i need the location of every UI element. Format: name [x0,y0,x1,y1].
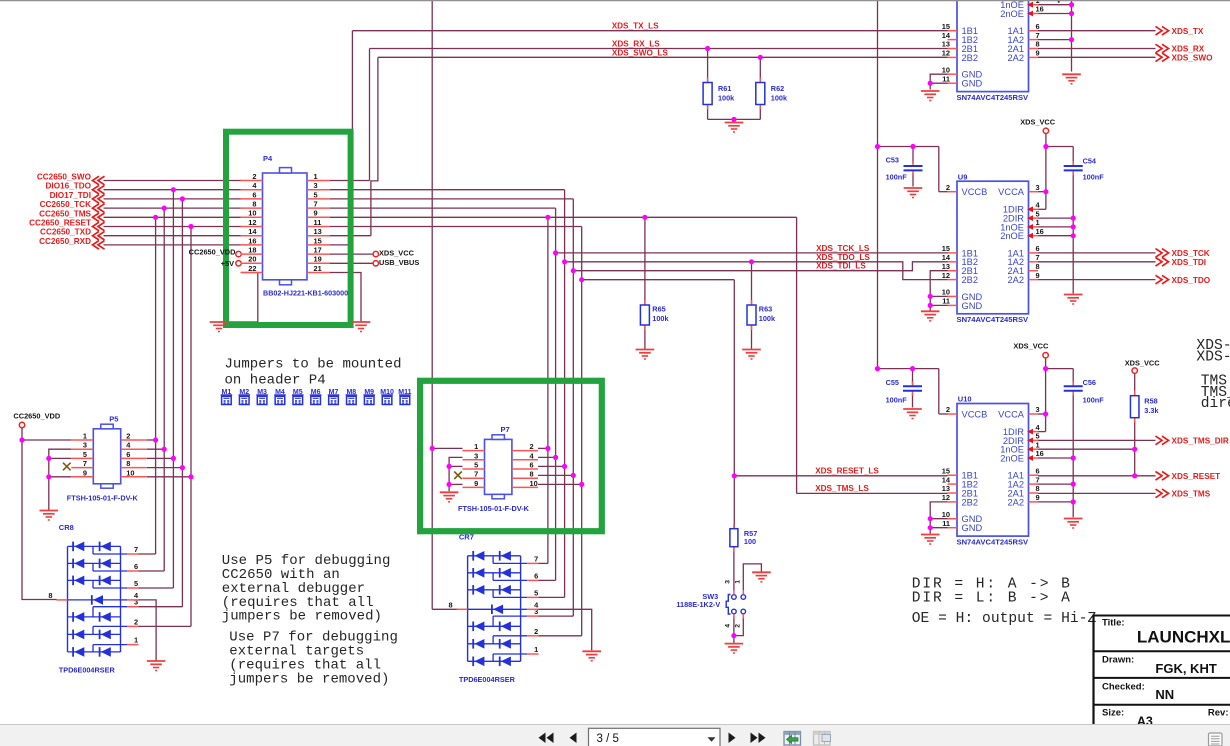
svg-text:XDS_TX_LS: XDS_TX_LS [612,21,659,30]
svg-text:11: 11 [942,74,950,83]
svg-text:XDS_RESET: XDS_RESET [1172,472,1221,481]
svg-text:U9: U9 [958,172,968,181]
svg-text:VCCA: VCCA [998,187,1025,197]
svg-text:12: 12 [942,49,950,58]
svg-text:9: 9 [1036,271,1040,280]
svg-text:100nF: 100nF [1083,172,1105,181]
svg-text:100nF: 100nF [886,396,908,405]
svg-text:8: 8 [252,200,256,209]
svg-text:16: 16 [1036,227,1044,236]
svg-text:2A2: 2A2 [1007,497,1024,507]
svg-text:14: 14 [942,253,951,262]
svg-text:DIR = L: B -> A: DIR = L: B -> A [912,591,1070,607]
svg-text:18: 18 [248,246,256,255]
svg-text:3.3k: 3.3k [1144,406,1159,415]
svg-text:14: 14 [942,475,951,484]
svg-text:XDS_VCC: XDS_VCC [1013,342,1049,351]
svg-text:10: 10 [942,288,950,297]
svg-text:8: 8 [1036,262,1040,271]
svg-text:6: 6 [126,450,130,459]
svg-text:USB_VBUS: USB_VBUS [379,258,419,267]
svg-text:XDS_VCC: XDS_VCC [1125,358,1161,367]
svg-text:GND: GND [962,79,983,89]
svg-text:C54: C54 [1083,156,1097,165]
svg-text:4: 4 [1036,423,1041,432]
svg-text:100k: 100k [718,94,735,103]
svg-text:9: 9 [83,468,87,477]
svg-text:XDS_TMS_DIR: XDS_TMS_DIR [1172,437,1229,446]
svg-text:TPD6E004RSER: TPD6E004RSER [459,675,516,684]
svg-text:5: 5 [83,450,87,459]
svg-text:5: 5 [474,461,478,470]
svg-text:1: 1 [1036,218,1040,227]
svg-text:21: 21 [314,264,322,273]
svg-text:OE = H: output = Hi-Z: OE = H: output = Hi-Z [912,611,1097,627]
svg-text:XDS_RX_LS: XDS_RX_LS [612,39,660,48]
svg-text:3 / 5: 3 / 5 [597,733,619,745]
svg-text:XDS_VCC: XDS_VCC [379,249,415,258]
svg-text:19: 19 [314,255,322,264]
svg-text:Title:: Title: [1102,618,1125,629]
svg-text:3: 3 [83,441,87,450]
svg-text:100nF: 100nF [886,172,908,181]
svg-text:+5V: +5V [221,259,234,268]
svg-text:9: 9 [314,209,318,218]
svg-text:2: 2 [946,183,950,192]
svg-text:16: 16 [1036,5,1044,14]
svg-text:FGK, KHT: FGK, KHT [1155,661,1216,676]
svg-text:XDS_TX: XDS_TX [1172,27,1204,36]
svg-text:7: 7 [314,200,318,209]
svg-text:7: 7 [534,554,538,563]
svg-text:R65: R65 [652,304,665,313]
svg-text:2: 2 [534,627,538,636]
svg-text:XDS_TDO: XDS_TDO [1172,276,1211,285]
svg-text:8: 8 [48,591,52,600]
svg-text:P7: P7 [501,425,510,434]
svg-text:SN74AVC4T245RSV: SN74AVC4T245RSV [957,315,1030,324]
svg-text:DIO17_TDI: DIO17_TDI [50,191,91,200]
svg-text:1: 1 [735,580,742,584]
svg-text:R61: R61 [718,84,731,93]
svg-text:3: 3 [314,181,318,190]
svg-text:CC2650_VDD: CC2650_VDD [189,248,236,257]
svg-text:14: 14 [248,227,257,236]
svg-text:100nF: 100nF [1083,396,1105,405]
svg-text:4: 4 [126,441,131,450]
svg-text:Jumpers to be mounted: Jumpers to be mounted [225,357,402,373]
svg-text:9: 9 [1036,49,1040,58]
svg-text:2nOE: 2nOE [1000,231,1024,241]
svg-text:17: 17 [314,246,322,255]
svg-text:2nOE: 2nOE [1000,9,1024,19]
svg-text:DIO16_TDO: DIO16_TDO [46,182,92,191]
svg-text:CC2650_TXD: CC2650_TXD [40,228,91,237]
svg-text:2B2: 2B2 [962,275,979,285]
svg-text:BB02-HJ221-KB1-603000: BB02-HJ221-KB1-603000 [263,288,348,297]
svg-text:6: 6 [530,461,534,470]
svg-text:5: 5 [1036,209,1040,218]
svg-text:2: 2 [530,442,534,451]
svg-text:CC2650_TCK: CC2650_TCK [40,200,92,209]
svg-text:VCCB: VCCB [962,187,988,197]
svg-text:9: 9 [1036,493,1040,502]
svg-text:2: 2 [946,405,950,414]
svg-text:13: 13 [942,40,950,49]
svg-text:5: 5 [134,579,138,588]
svg-text:XDS_TMS_LS: XDS_TMS_LS [815,484,869,493]
svg-text:12: 12 [942,493,950,502]
svg-text:FTSH-105-01-F-DV-K: FTSH-105-01-F-DV-K [458,504,530,513]
svg-text:1: 1 [314,172,318,181]
svg-text:11: 11 [942,519,950,528]
svg-text:12: 12 [248,218,256,227]
svg-text:2: 2 [735,624,742,628]
svg-text:GND: GND [962,301,983,311]
svg-text:jumpers be removed): jumpers be removed) [229,671,389,687]
svg-text:Size:: Size: [1102,707,1124,718]
svg-text:R62: R62 [771,84,784,93]
svg-text:4: 4 [534,600,539,609]
svg-text:100k: 100k [652,314,669,323]
svg-text:22: 22 [248,264,256,273]
svg-text:SN74AVC4T245RSV: SN74AVC4T245RSV [957,93,1030,102]
svg-text:LAUNCHXL-: LAUNCHXL- [1137,627,1230,646]
svg-text:15: 15 [942,466,950,475]
svg-text:5: 5 [314,190,318,199]
svg-text:10: 10 [530,479,538,488]
svg-text:4: 4 [530,451,535,460]
svg-text:8: 8 [530,470,534,479]
svg-text:5: 5 [534,588,538,597]
svg-text:6: 6 [134,562,138,571]
svg-text:2nOE: 2nOE [1000,453,1024,463]
svg-text:U10: U10 [958,395,972,404]
svg-text:2: 2 [252,172,256,181]
svg-text:2B2: 2B2 [962,53,979,63]
svg-text:XDS_TCK_LS: XDS_TCK_LS [816,244,870,253]
svg-text:15: 15 [314,236,322,245]
svg-text:13: 13 [942,484,950,493]
svg-text:6: 6 [252,190,256,199]
svg-text:P4: P4 [263,154,273,163]
svg-text:C55: C55 [886,378,899,387]
svg-text:CC2650_RESET: CC2650_RESET [29,219,91,228]
svg-text:100k: 100k [759,314,776,323]
svg-text:XDS-: XDS- [1196,349,1230,365]
svg-text:dire: dire [1201,396,1230,412]
svg-text:XDS_TCK: XDS_TCK [1172,249,1210,258]
svg-text:6: 6 [534,571,538,580]
svg-text:on header P4: on header P4 [225,373,326,389]
svg-text:7: 7 [474,470,478,479]
svg-text:20: 20 [248,255,256,264]
svg-text:11: 11 [942,297,950,306]
svg-text:XDS_VCC: XDS_VCC [1020,118,1056,127]
svg-text:1: 1 [134,636,138,645]
svg-text:7: 7 [1036,475,1040,484]
svg-text:R63: R63 [759,304,772,313]
svg-text:XDS_RESET_LS: XDS_RESET_LS [815,466,879,475]
svg-text:15: 15 [942,244,950,253]
svg-text:16: 16 [1036,449,1044,458]
svg-text:10: 10 [942,65,950,74]
svg-text:3: 3 [1036,405,1040,414]
svg-text:4: 4 [134,591,139,600]
svg-text:CC2650_VDD: CC2650_VDD [13,412,60,421]
svg-text:10: 10 [248,209,256,218]
svg-text:3: 3 [474,451,478,460]
svg-text:2: 2 [126,432,130,441]
svg-text:1: 1 [1036,440,1040,449]
svg-text:GND: GND [962,523,983,533]
svg-text:XDS_SWO: XDS_SWO [1172,54,1214,63]
svg-text:4: 4 [1036,201,1041,210]
svg-text:3: 3 [1036,183,1040,192]
svg-text:TPD6E004RSER: TPD6E004RSER [59,665,116,674]
svg-text:1: 1 [474,442,478,451]
svg-text:VCCA: VCCA [998,409,1025,419]
svg-text:5: 5 [1036,432,1040,441]
svg-text:16: 16 [248,236,256,245]
svg-text:10: 10 [126,468,134,477]
svg-text:Checked:: Checked: [1102,682,1145,693]
svg-text:100k: 100k [771,94,788,103]
svg-text:6: 6 [1036,466,1040,475]
svg-text:XDS_SWO_LS: XDS_SWO_LS [612,48,669,57]
svg-text:14: 14 [942,31,951,40]
svg-text:C56: C56 [1083,378,1096,387]
svg-text:4: 4 [252,181,257,190]
svg-text:XDS_TDI: XDS_TDI [1172,258,1207,267]
svg-text:13: 13 [942,262,950,271]
svg-text:11: 11 [314,218,322,227]
svg-text:XDS_TMS: XDS_TMS [1172,490,1211,499]
svg-text:2A2: 2A2 [1007,53,1024,63]
svg-text:6: 6 [1036,22,1040,31]
svg-text:jumpers be removed): jumpers be removed) [222,609,382,625]
svg-text:100: 100 [744,537,756,546]
svg-text:P5: P5 [109,414,118,423]
svg-text:9: 9 [474,479,478,488]
svg-text:C53: C53 [886,155,899,164]
svg-text:1188E-1K2-V: 1188E-1K2-V [676,600,720,609]
svg-text:7: 7 [1036,31,1040,40]
svg-text:6: 6 [1036,244,1040,253]
svg-text:1: 1 [534,645,538,654]
svg-text:8: 8 [1036,40,1040,49]
svg-text:7: 7 [1036,253,1040,262]
svg-text:Drawn:: Drawn: [1102,654,1134,665]
svg-text:15: 15 [942,22,950,31]
svg-text:CC2650_SWO: CC2650_SWO [37,173,92,182]
svg-text:4: 4 [725,624,732,628]
svg-text:XDS_TDI_LS: XDS_TDI_LS [816,262,866,271]
svg-text:13: 13 [314,227,322,236]
svg-text:Rev:: Rev: [1208,707,1229,718]
svg-text:2B2: 2B2 [962,497,979,507]
svg-text:10: 10 [942,510,950,519]
svg-text:8: 8 [448,600,452,609]
svg-text:12: 12 [942,271,950,280]
svg-text:CC2650_TMS: CC2650_TMS [39,209,91,218]
svg-text:NN: NN [1155,687,1174,702]
svg-text:7: 7 [134,545,138,554]
svg-text:XDS_TDO_LS: XDS_TDO_LS [816,253,870,262]
svg-text:7: 7 [83,459,87,468]
svg-text:1: 1 [83,432,87,441]
svg-text:FTSH-105-01-F-DV-K: FTSH-105-01-F-DV-K [67,493,139,502]
svg-text:2A2: 2A2 [1007,275,1024,285]
svg-text:CR7: CR7 [459,533,474,542]
svg-text:8: 8 [1036,484,1040,493]
svg-text:VCCB: VCCB [962,409,988,419]
svg-text:CC2650_RXD: CC2650_RXD [39,237,91,246]
svg-text:2: 2 [134,617,138,626]
svg-text:SN74AVC4T245RSV: SN74AVC4T245RSV [957,538,1030,547]
svg-text:R58: R58 [1144,397,1157,406]
svg-text:CR8: CR8 [59,523,74,532]
svg-text:8: 8 [126,459,130,468]
svg-text:3: 3 [725,580,732,584]
svg-text:XDS_RX: XDS_RX [1172,45,1205,54]
